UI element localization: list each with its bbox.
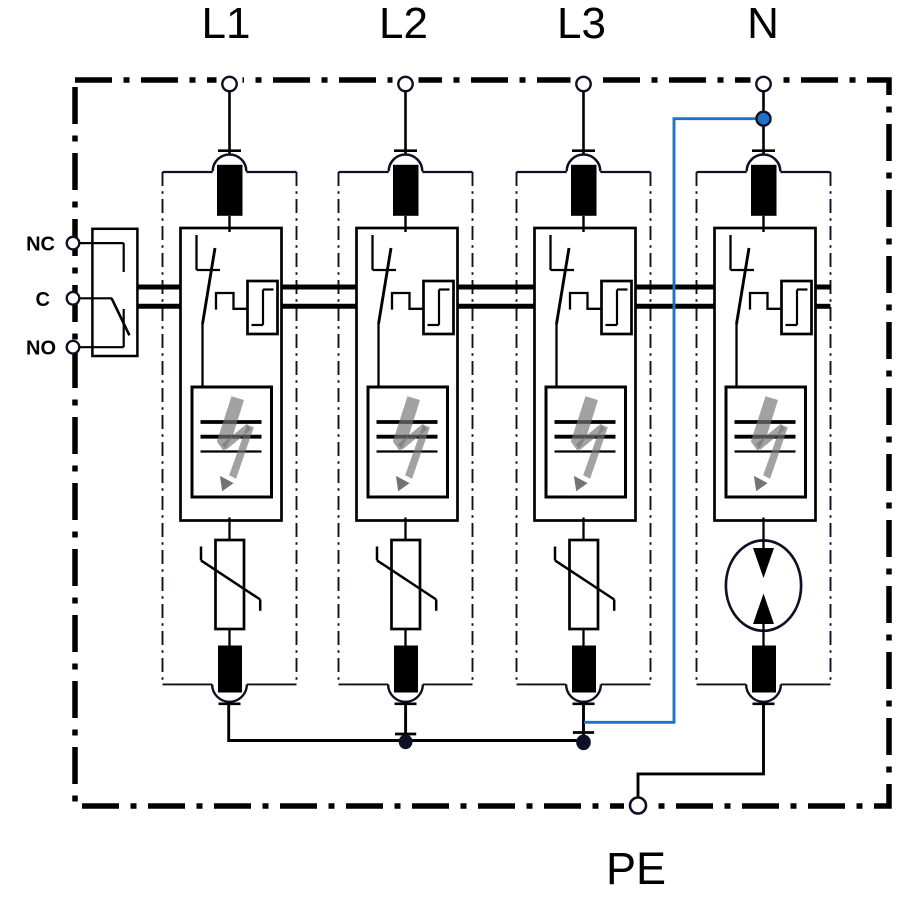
svg-text:N: N bbox=[747, 0, 779, 48]
wire L3 terminal to plug contact bbox=[582, 91, 585, 154]
terminal circle NC bbox=[67, 237, 80, 250]
thermal disconnector box L2 bbox=[357, 228, 458, 521]
remote signalling contact box bbox=[92, 229, 137, 356]
plug pin black L3 bottom bbox=[572, 646, 596, 693]
thermal trip element N bbox=[750, 293, 782, 310]
lightning bolt L1 bbox=[217, 396, 254, 491]
svg-text:L1: L1 bbox=[202, 0, 251, 48]
wire varistor to bottom pin L2 bbox=[404, 629, 406, 647]
step symbol in trigger box L3 bbox=[606, 290, 628, 326]
terminal circle PE bbox=[624, 798, 652, 814]
thermal trip element L1 bbox=[216, 293, 248, 310]
C contact wire and switch blade bbox=[79, 298, 129, 335]
svg-text:NC: NC bbox=[26, 234, 55, 256]
lightning bolt L3 bbox=[571, 396, 608, 491]
svg-text:C: C bbox=[36, 289, 50, 311]
contact bar L2 lower bbox=[395, 733, 416, 736]
trigger box L3 bbox=[602, 281, 632, 334]
plug contact bar top L1 bbox=[218, 149, 241, 152]
trigger box N bbox=[782, 281, 812, 334]
terminal circle L2 bbox=[393, 76, 419, 92]
wire L2 bottom to PE bus bbox=[404, 704, 407, 742]
plug contact bar top L3 bbox=[572, 149, 595, 152]
varistor L3 bbox=[555, 540, 614, 629]
contact bar L3 lower bbox=[573, 731, 594, 734]
plug contact bar top N bbox=[752, 149, 775, 152]
thermal trip element L3 bbox=[570, 293, 602, 310]
wire box to arrester L1 bbox=[228, 518, 230, 542]
plug pin black N top bbox=[751, 165, 777, 216]
wire L1 terminal to plug contact bbox=[228, 91, 231, 154]
plug pin black L2 top bbox=[393, 165, 419, 216]
wire N bottom to PE terminal bbox=[638, 704, 764, 798]
trigger box L1 bbox=[248, 281, 278, 334]
plug socket dome top N bbox=[747, 155, 781, 172]
bus wire lower (remote contact loop) bbox=[137, 304, 830, 309]
step symbol in trigger box L2 bbox=[428, 290, 450, 326]
plug pin black L1 top bbox=[217, 165, 243, 216]
module dash-dot outline L1 bbox=[163, 172, 297, 684]
plug socket dome bottom L1 bbox=[212, 684, 247, 701]
plug contact bar top L2 bbox=[394, 149, 417, 152]
electrode lines L1 bbox=[201, 422, 262, 452]
varistor L2 bbox=[377, 540, 436, 629]
blue junction node on N wire bbox=[757, 112, 771, 126]
plug pin black L1 bottom bbox=[218, 646, 242, 693]
spark gap box L3 bbox=[546, 387, 626, 497]
wire box to arrester N bbox=[762, 518, 764, 542]
spark gap box N bbox=[726, 387, 806, 497]
disconnector switch L1 bbox=[197, 235, 221, 388]
trigger box L2 bbox=[424, 281, 454, 334]
wire stub into disconnector box L3 bbox=[582, 216, 584, 232]
NO contact wire bbox=[79, 309, 123, 347]
plug contact bar bottom N bbox=[753, 702, 775, 705]
NC contact wire bbox=[79, 243, 123, 272]
wire L2 terminal to plug contact bbox=[404, 91, 407, 154]
thermal trip element L2 bbox=[392, 293, 424, 310]
wire box to arrester L3 bbox=[582, 518, 584, 542]
step symbol in trigger box L1 bbox=[252, 290, 274, 326]
module dash-dot outline N bbox=[697, 172, 831, 684]
thermal disconnector box L3 bbox=[535, 228, 636, 521]
plug socket dome bottom L2 bbox=[388, 684, 423, 701]
module dash-dot outline L2 bbox=[339, 172, 473, 684]
plug pin black L2 bottom bbox=[394, 646, 418, 693]
disconnector switch L2 bbox=[373, 235, 397, 388]
wire box to arrester L2 bbox=[404, 518, 406, 542]
svg-text:NO: NO bbox=[26, 338, 56, 360]
plug socket dome bottom L3 bbox=[566, 684, 601, 701]
wire stub into disconnector box N bbox=[762, 216, 764, 232]
bus wire upper (remote contact loop) bbox=[137, 285, 830, 290]
svg-text:PE: PE bbox=[606, 843, 666, 894]
wire varistor to bottom pin L3 bbox=[582, 629, 584, 647]
plug socket dome top L3 bbox=[567, 155, 601, 172]
junction node L3/PE bbox=[576, 735, 591, 751]
svg-text:L2: L2 bbox=[379, 0, 428, 48]
thermal disconnector box N bbox=[715, 228, 816, 521]
terminal circle L1 bbox=[217, 76, 243, 92]
terminal circle C bbox=[67, 292, 80, 305]
blue neutral wire N to L3 node bbox=[584, 119, 764, 723]
plug pin black L3 top bbox=[571, 165, 597, 216]
plug pin black N bottom bbox=[752, 646, 776, 693]
wire L3 bottom to PE bus bbox=[582, 704, 585, 742]
spark gap box L2 bbox=[368, 387, 448, 497]
plug contact bar bottom L1 bbox=[219, 702, 241, 705]
plug contact bar bottom L2 bbox=[395, 702, 417, 705]
terminal circle L3 bbox=[571, 76, 597, 92]
disconnector switch N bbox=[731, 235, 755, 388]
svg-text:L3: L3 bbox=[557, 0, 606, 48]
junction node L2/PE bbox=[399, 734, 413, 749]
wire varistor to bottom pin L1 bbox=[228, 629, 230, 647]
lightning bolt N bbox=[751, 396, 788, 491]
plug contact bar bottom L3 bbox=[573, 702, 595, 705]
GDT electrodes N bbox=[753, 540, 774, 647]
electrode lines L3 bbox=[555, 422, 616, 452]
module dash-dot outline L3 bbox=[517, 172, 651, 684]
plug socket dome top L2 bbox=[389, 155, 423, 172]
plug socket dome top L1 bbox=[213, 155, 247, 172]
electrode lines L2 bbox=[377, 422, 438, 452]
device enclosure dash-dot border bbox=[75, 80, 889, 806]
varistor L1 bbox=[201, 540, 260, 629]
terminal circle NO bbox=[67, 341, 80, 354]
wire stub into disconnector box L1 bbox=[228, 216, 230, 232]
thermal disconnector box L1 bbox=[181, 228, 282, 521]
terminal circle N bbox=[751, 76, 777, 92]
gas discharge tube N bbox=[726, 540, 801, 630]
wire stub into disconnector box L2 bbox=[404, 216, 406, 232]
plug socket dome bottom N bbox=[746, 684, 781, 701]
step symbol in trigger box N bbox=[786, 290, 808, 326]
electrode lines N bbox=[735, 422, 796, 452]
lightning bolt L2 bbox=[393, 396, 430, 491]
disconnector switch L3 bbox=[551, 235, 575, 388]
spark gap box L1 bbox=[192, 387, 272, 497]
wire N terminal to plug contact bbox=[762, 91, 765, 154]
wire L1 bottom to PE bus bbox=[229, 704, 584, 741]
